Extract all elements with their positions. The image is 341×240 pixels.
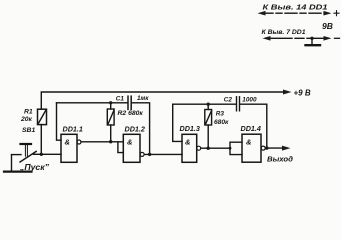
wire: DD1.2 output to DD1.3 lower input: [144, 153, 182, 155]
capacitor C1: [128, 96, 131, 109]
node: R3 bottom junction: [207, 147, 210, 150]
wire: C2 right to DD1.4 output: [240, 104, 267, 148]
wire: +9V top rail: [41, 92, 286, 109]
wire: DD1.4 input bracket: [230, 142, 242, 154]
node: R1/SB1/DD1.1 input junction: [40, 153, 43, 156]
svg-text:&: &: [185, 138, 190, 147]
svg-text:9В: 9В: [322, 21, 333, 31]
node: R2 top junction: [109, 101, 112, 104]
svg-text:Выход: Выход: [267, 154, 293, 163]
svg-text:К Выв. 14 DD1: К Выв. 14 DD1: [263, 2, 328, 11]
wire: SB1 left lead down: [11, 155, 13, 172]
battery plus terminal: [334, 11, 339, 16]
gate DD1.4: [241, 124, 266, 162]
ground (common) symbol top right: [311, 38, 313, 44]
svg-text:DD1.2: DD1.2: [125, 125, 145, 134]
svg-text:680к: 680к: [214, 119, 229, 126]
wire: C2 feedback to DD1.3 upper input: [173, 104, 236, 141]
node: R3 top junction: [207, 103, 210, 106]
svg-text:К Выв. 7 DD1: К Выв. 7 DD1: [262, 29, 306, 36]
svg-text:DD1.3: DD1.3: [180, 124, 200, 133]
gate DD1.1: [61, 125, 83, 163]
svg-text:20к: 20к: [20, 116, 33, 123]
pushbutton SB1: [12, 127, 42, 162]
svg-text:С2: С2: [224, 97, 233, 104]
node: junction on pin7 line: [310, 37, 313, 40]
resistor R2: [107, 103, 114, 142]
battery minus terminal: [335, 37, 340, 39]
gate DD1.2: [123, 125, 145, 163]
node: junction at DD1.4 output: [265, 146, 268, 149]
svg-text:R2 680к: R2 680к: [118, 110, 144, 117]
wire: dashed link to DD1 pin 7: [266, 37, 328, 39]
svg-text:DD1.1: DD1.1: [63, 125, 83, 134]
svg-text:&: &: [65, 138, 70, 147]
svg-text:R3: R3: [216, 111, 225, 118]
resistor R3: [205, 104, 212, 148]
capacitor C2: [237, 97, 240, 111]
svg-text:+9 В: +9 В: [294, 89, 311, 98]
svg-text:R1: R1: [24, 109, 33, 116]
node: junction at DD1.2 output: [148, 153, 151, 156]
wire: DD1.4 output to Выход arrow: [265, 147, 285, 149]
wire: button junction to DD1.1 lower input: [41, 153, 61, 155]
svg-text:1000: 1000: [242, 97, 257, 104]
node: R2 bottom junction: [109, 140, 112, 143]
svg-text:DD1.4: DD1.4: [241, 124, 261, 133]
svg-text:&: &: [127, 138, 132, 147]
ground (chassis) bottom left: [4, 171, 32, 173]
svg-text:„Пуск”: „Пуск”: [19, 163, 49, 172]
wire: C1 feedback top run: [57, 102, 128, 104]
wire: R1 bottom to button junction: [40, 125, 42, 155]
node: wire meets DD1.4 input bracket: [229, 147, 232, 150]
svg-text:С1: С1: [116, 95, 125, 102]
gate DD1.3: [180, 124, 201, 162]
wire: C1 right to DD1.2 output: [131, 103, 149, 155]
wire: DD1.1 output to DD1.2 inputs: [81, 141, 123, 143]
svg-text:SB1: SB1: [22, 127, 35, 134]
resistor R1: [38, 109, 47, 124]
svg-text:&: &: [246, 138, 251, 147]
node: C1 feedback to DD1.1 upper input: [57, 103, 62, 140]
wire: dashed link to DD1 pin 14: [261, 12, 328, 14]
svg-text:1мк: 1мк: [137, 95, 149, 102]
wire: DD1.3 output to DD1.4 inputs: [201, 147, 230, 149]
